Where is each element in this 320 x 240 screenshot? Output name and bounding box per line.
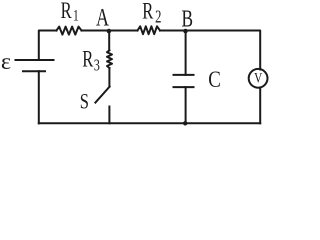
svg-text:A: A	[96, 4, 109, 32]
wire node B to top-right corner down to voltmeter	[186, 31, 261, 70]
wire R1 to node A	[82, 30, 109, 32]
label R1	[61, 0, 79, 25]
svg-text:V: V	[254, 69, 263, 86]
svg-text:C: C	[208, 66, 221, 92]
capacitor C plates	[174, 75, 194, 87]
svg-text:2: 2	[155, 8, 161, 28]
wire bottom	[39, 122, 260, 124]
svg-text:R: R	[61, 0, 73, 24]
label R2	[142, 0, 161, 27]
wire capacitor to bottom junction	[185, 87, 187, 123]
wire node A to R2	[109, 30, 138, 32]
svg-text:B: B	[182, 5, 194, 33]
wire battery to bottom wire	[38, 71, 40, 123]
junction dot capacitor branch at bottom wire	[183, 121, 187, 125]
switch lower contact wire	[108, 107, 110, 124]
wire left top segment and lead into R1	[39, 31, 57, 61]
node A junction dot	[107, 29, 112, 34]
svg-text:R: R	[142, 0, 154, 24]
resistor R1	[57, 27, 82, 35]
resistor R3	[107, 50, 112, 68]
wire R2 to node B	[160, 30, 186, 32]
svg-text:1: 1	[73, 8, 79, 25]
resistor R2	[138, 26, 161, 34]
svg-text:R: R	[82, 47, 94, 72]
svg-text:S: S	[80, 91, 89, 115]
wire node B down to capacitor	[185, 31, 187, 75]
battery EMF source plates	[16, 60, 54, 71]
wire voltmeter to bottom-right corner	[259, 88, 261, 124]
wire node A down to R3	[108, 31, 110, 50]
node B junction dot	[183, 29, 188, 34]
svg-text:ε: ε	[1, 49, 11, 74]
wire R3 to switch pivot	[108, 68, 110, 87]
voltmeter U1 circle	[249, 69, 268, 88]
svg-text:3: 3	[94, 57, 100, 75]
label R3	[82, 47, 100, 75]
switch S blade open	[95, 87, 109, 103]
